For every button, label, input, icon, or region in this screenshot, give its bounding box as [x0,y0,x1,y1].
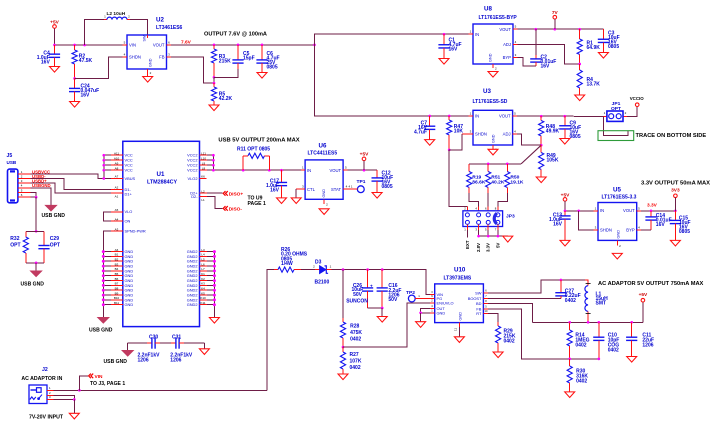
svg-text:LT1761ES5-BYP: LT1761ES5-BYP [479,15,518,21]
pin A1 D1+ [111,192,132,199]
svg-text:USBGND: USBGND [32,183,51,188]
pin L7 GND2 [187,267,216,273]
resistor R32 [10,231,36,263]
svg-text:15pF: 15pF [243,56,255,62]
wire output rail [532,321,643,323]
ground C1 [439,59,449,65]
svg-text:VOUT: VOUT [623,208,635,213]
pin L1 D2- [191,194,207,202]
ground R29 [493,352,503,358]
svg-text:SW: SW [143,35,147,42]
svg-text:0402: 0402 [565,298,576,304]
wire BD to output rail [488,304,532,323]
wire U8 VOUT rail [518,28,604,30]
ground U2 [143,77,153,83]
wire VCC2 rail to U6 [243,169,306,171]
svg-text:4.7uF: 4.7uF [414,130,427,136]
svg-text:LT1761ES5-3.3: LT1761ES5-3.3 [602,195,637,201]
svg-text:86.6K: 86.6K [472,179,486,185]
op-amp U3 LT1761ES5-SD [462,88,517,152]
ground U1 right [209,318,219,324]
wire BYP U5 [641,229,651,231]
svg-text:OPT: OPT [611,106,621,112]
pin K5 GND2 [187,291,216,297]
power +5V (output) [639,292,648,323]
svg-text:OUTPUT 7.6V @ 100mA: OUTPUT 7.6V @ 100mA [204,31,267,37]
svg-text:GND: GND [617,230,621,239]
wire U5 input [565,210,598,212]
wire VLO-ON strap [103,212,111,221]
wire U1 VCC2 bus [213,155,243,170]
diode D3 B2100 [313,259,332,285]
ground R27 [338,374,348,380]
svg-text:B4: B4 [115,267,119,271]
svg-text:BYP: BYP [503,55,512,60]
svg-text:DISO+: DISO+ [229,191,244,197]
node input rail junctions [53,44,86,47]
ground C12 [372,193,382,199]
wire R19 to JP3 [469,193,478,206]
svg-text:4 1: 4 1 [349,185,353,189]
capacitor C16 [377,270,402,308]
svg-text:VOUT: VOUT [499,27,511,32]
wire USBVCC to U1 [31,174,123,178]
power 7V [552,10,559,29]
wire J5 shield [31,193,37,198]
ground USB GND (U1) [89,318,113,334]
svg-text:7V: 7V [552,10,559,16]
ground R30 [565,392,575,398]
capacitor C6 [256,45,279,73]
svg-text:VCCIO: VCCIO [630,96,644,101]
svg-text:IN: IN [475,114,479,119]
svg-text:CTL: CTL [307,187,316,192]
svg-text:VOUT: VOUT [153,42,165,47]
capacitor C2 [530,29,556,69]
wire R50 to JP3 [498,193,507,206]
resistor R49 [539,145,559,177]
svg-text:B2100: B2100 [315,280,330,286]
svg-text:J5: J5 [7,153,13,159]
op-amp U8 LT1761ES5-BYP [469,6,518,71]
svg-text:IN: IN [307,168,311,173]
wire diagonal divider [521,145,541,164]
svg-text:B6: B6 [115,277,119,281]
pin A10 VCC [102,156,132,162]
svg-text:VIN: VIN [129,42,136,47]
ground U10 OUT [416,322,426,328]
wire BOOST to C27 [488,297,561,299]
svg-text:IN: IN [600,208,604,213]
pin B7 GND [102,282,134,288]
resistor R11 [237,147,270,171]
wire VIN riser to R26 [267,270,274,391]
pin L8 VCC2 [187,166,215,172]
svg-text:L2 10uH: L2 10uH [107,11,126,17]
resistor R27 [340,347,361,374]
connector J5 USB [7,153,31,203]
svg-text:50V: 50V [353,292,363,298]
svg-text:USB GND: USB GND [104,359,128,365]
pin L4 GND2 [187,253,216,259]
svg-text:GND: GND [437,310,446,315]
ground U3 [488,149,498,155]
svg-text:0805: 0805 [382,184,393,190]
ground U8 [488,72,498,78]
pin K1 GND2 [187,272,216,278]
capacitor C30 [138,335,161,364]
svg-text:VLO: VLO [125,209,133,214]
svg-text:B8: B8 [115,286,119,290]
wire USBD- to U1 [31,179,123,190]
svg-text:DISO-: DISO- [229,206,243,212]
wire SHDN U3 [449,134,462,150]
svg-text:107K: 107K [350,359,362,365]
resistor R3 [211,45,231,77]
pin B1 GND [102,253,134,259]
ground U10 [454,337,464,343]
wire D2- to ISO- [207,196,223,208]
wire U3 VOUT rail [517,115,607,117]
pin K4 GND2 [187,286,216,292]
svg-text:C31: C31 [172,335,181,341]
svg-text:+5V: +5V [50,20,59,26]
svg-text:475K: 475K [350,330,362,336]
svg-text:0805: 0805 [608,44,619,50]
svg-text:GND: GND [322,189,326,198]
svg-text:16V: 16V [553,222,563,228]
pin L10 VCC2 [187,156,215,162]
power VCCIO [630,96,644,106]
svg-text:B3: B3 [115,262,119,266]
pin K3 GND2 [187,282,216,288]
svg-text:1206: 1206 [138,358,149,364]
pin A4 ON [111,217,131,223]
svg-text:5V: 5V [495,243,500,248]
pin A2 D1- [111,186,131,192]
wire SHDN to JP3 [449,150,467,207]
resistor R26 [274,247,308,272]
svg-text:2.8V: 2.8V [476,243,481,252]
wire trace on bottom side [603,116,627,135]
svg-text:A5: A5 [115,208,119,212]
svg-text:SHDN: SHDN [600,228,612,233]
svg-text:SHDN: SHDN [475,132,487,137]
wire C30 left [127,343,129,350]
svg-text:TP1: TP1 [357,179,366,185]
svg-text:ADJ: ADJ [503,42,511,47]
svg-text:VOUT: VOUT [329,168,341,173]
svg-text:TO J3, PAGE 1: TO J3, PAGE 1 [90,381,125,387]
power +5V (U2 input) [50,20,59,29]
svg-text:U5: U5 [613,187,621,194]
capacitor C11 [626,322,654,356]
svg-text:0805: 0805 [679,229,690,235]
capacitor C26 polarized [346,270,373,308]
svg-text:C29: C29 [50,236,59,242]
node VIN off-page [89,374,103,381]
capacitor C10 [593,322,619,359]
svg-text:C30: C30 [149,335,158,341]
capacitor C4 [37,45,60,67]
pin L11 VCC2 [187,151,215,157]
svg-text:L8: L8 [202,166,206,170]
wire USBD+ to U1 [31,183,123,193]
wire rail to U8 [315,34,474,45]
svg-text:L7: L7 [201,267,205,271]
svg-text:USB GND: USB GND [89,328,113,334]
svg-text:1206: 1206 [170,358,181,364]
wire U1 VCC bus [103,155,105,178]
capacitor C1 [438,34,461,58]
wire RT to R29 [488,314,498,323]
wire 7.6V rail [171,44,315,46]
svg-text:K2: K2 [201,277,205,281]
svg-text:D3: D3 [315,259,322,265]
power +5V (U6) [360,152,369,171]
pin A7 VBUS [111,175,135,181]
wire SHDN U2 [75,57,127,79]
op-amp U10 LT3973EMS [430,267,488,332]
power 3V3 [671,187,680,211]
power +5V (U5) [561,192,570,210]
ground R4 [575,95,585,101]
resistor R1 [577,29,600,64]
ground C11 [627,357,637,363]
svg-text:0402: 0402 [576,379,587,385]
svg-text:GND: GND [492,134,496,143]
svg-text:A10: A10 [114,156,120,160]
connector J2 [21,367,62,404]
ground JP3 [503,236,513,242]
svg-text:BYP: BYP [626,228,635,233]
svg-text:0402: 0402 [504,339,515,345]
svg-text:B2: B2 [115,257,119,261]
svg-text:VCC: VCC [125,168,133,173]
wire C31 right [203,343,205,349]
svg-text:105K: 105K [547,158,559,164]
wire R3-R5 [213,77,215,83]
ground C26/C16 [377,317,387,323]
ground C31 [199,349,209,355]
svg-text:U3: U3 [483,88,491,95]
svg-text:0402: 0402 [575,342,586,348]
wire U10 gnd [458,327,460,337]
node R48/R49 [540,144,543,147]
resistor R5 [211,83,232,105]
svg-text:+5V: +5V [639,292,648,298]
svg-text:USB 5V OUTPUT 200mA MAX: USB 5V OUTPUT 200mA MAX [218,137,299,143]
svg-text:+: + [370,284,373,289]
wire rail to U3 [315,45,474,116]
ground C24 [70,102,80,108]
wire C26/C16 gnd [368,307,384,317]
wire FB [488,309,599,359]
svg-text:GND2: GND2 [187,302,198,307]
pin K11 GND2 [187,301,216,307]
svg-text:EN/UVLO: EN/UVLO [437,301,454,306]
svg-text:13.7K: 13.7K [587,82,601,88]
pin A6 GND [102,248,134,254]
svg-text:K3: K3 [201,282,205,286]
svg-text:16V: 16V [270,187,280,193]
pin B2 GND [102,257,134,263]
capacitor C27 [555,280,580,304]
svg-text:B11: B11 [114,301,119,305]
wire CTL gnd [295,189,297,198]
ground C7 [425,140,435,146]
pin B8 GND [102,286,134,292]
svg-text:LTC4411ES5: LTC4411ES5 [308,150,338,156]
pin K10 GND2 [187,296,216,302]
svg-text:0805: 0805 [267,64,278,70]
green box trace [598,131,634,141]
capacitor C5 [232,45,254,69]
ground U6 GND [319,209,329,215]
resistor R14 [567,322,590,359]
svg-text:A11: A11 [114,151,119,155]
svg-text:B10: B10 [114,296,120,300]
svg-text:R27: R27 [350,352,359,358]
wire FB feedback [171,57,214,83]
inductor L2 [104,11,130,20]
svg-text:R28: R28 [350,324,359,330]
op-amp U6 LTC4411ES5 [296,142,347,206]
wire BYP to C2 [518,58,536,66]
pin A5 VLO [111,208,132,214]
wire U1 left GND bus [102,252,104,318]
svg-text:AC ADAPTOR 5V OUTPUT 750mA MAX: AC ADAPTOR 5V OUTPUT 750mA MAX [598,281,704,287]
svg-text:42.2K: 42.2K [219,96,233,102]
svg-text:+5V: +5V [360,152,369,158]
svg-text:BD: BD [476,301,482,306]
svg-text:SMT: SMT [596,301,607,307]
svg-text:3.3V: 3.3V [486,243,491,252]
pin L5 GND2 [187,257,216,263]
wire U5 SHDN [579,211,598,230]
ground C15 [670,240,680,246]
svg-text:K5: K5 [201,291,205,295]
pin A9 VCC [102,161,132,167]
resistor R30 [567,359,588,392]
ground U5 [612,253,622,259]
svg-text:VBUS: VBUS [125,176,136,181]
svg-text:USB GND: USB GND [42,213,66,219]
svg-text:A2: A2 [115,186,119,190]
svg-text:K6: K6 [201,175,205,179]
svg-text:16V: 16V [81,93,91,99]
svg-text:VLO2: VLO2 [188,176,198,181]
pin A8 VCC [102,166,132,172]
capacitor C9 [559,116,581,140]
svg-text:16V: 16V [41,59,51,65]
resistor R19 [467,164,486,193]
pin A11 VCC [102,151,132,157]
wire D3 to VIN U10 [332,270,431,295]
capacitor C24 [69,79,99,102]
capacitor C17 [266,170,287,198]
svg-text:LT1761ES5-SD: LT1761ES5-SD [473,99,508,105]
svg-text:EXT: EXT [465,240,470,249]
wire JP1 pin2 to VCCIO [627,107,637,117]
svg-text:A9: A9 [115,161,119,165]
svg-text:U2: U2 [156,17,164,24]
capacitor C15 [670,211,691,241]
inductor L1 [585,280,608,322]
resistor R51 [486,164,505,193]
svg-text:B1: B1 [115,253,119,257]
svg-text:VIN: VIN [95,374,104,380]
svg-text:ADJ: ADJ [503,132,511,137]
text TO U9 PAGE 1 [248,196,266,207]
op-amp U5 LT1761ES5-3.3 [594,187,642,249]
resistor R50 [505,164,524,193]
pin K6 VLO2 [188,175,207,181]
svg-text:SHDN: SHDN [129,54,141,59]
svg-text:STAT: STAT [331,187,342,192]
wire U6 VOUT [348,169,378,171]
svg-text:3.3V: 3.3V [647,203,658,209]
node R2/C24 junction [73,77,76,80]
pin L2 D2+ [190,189,207,195]
capacitor C7 [414,116,435,140]
svg-text:3V3: 3V3 [671,187,680,193]
pin L3 GND2 [187,248,216,254]
ground C17 [277,198,287,204]
svg-text:7V-20V INPUT: 7V-20V INPUT [29,415,64,421]
svg-text:SUNCON: SUNCON [346,298,368,304]
op-amp U2 LT3461ES6 [123,17,183,77]
svg-text:OPT: OPT [10,242,20,248]
svg-text:K1: K1 [201,272,205,276]
svg-text:64.9K: 64.9K [587,45,601,51]
svg-text:A3: A3 [115,227,119,231]
svg-text:U6: U6 [319,142,327,149]
svg-text:LT3461ES6: LT3461ES6 [156,25,183,31]
wire L2 branch [85,20,104,45]
svg-text:OPT: OPT [50,242,60,248]
capacitor C14 [645,211,671,230]
resistor R47 [447,116,464,150]
node R28/R27 [342,346,345,349]
node ISO- [223,206,242,212]
wire JP3 bottom pins [467,224,507,237]
svg-text:16V: 16V [656,222,666,228]
svg-text:49.9K: 49.9K [546,129,560,135]
wire L2 to SW [130,20,148,35]
svg-text:K4: K4 [201,286,205,290]
wire SW to L1 [488,280,585,293]
svg-text:L1: L1 [201,198,205,202]
svg-text:47.5K: 47.5K [79,58,93,64]
svg-text:D2-: D2- [191,194,198,199]
ground C13 [560,240,570,246]
ground C3 [598,53,608,59]
svg-text:GND: GND [489,53,493,62]
svg-text:215K: 215K [219,59,231,65]
svg-text:R11 OPT 0805: R11 OPT 0805 [237,147,270,153]
svg-text:B9: B9 [115,291,119,295]
svg-text:0402: 0402 [350,365,361,371]
svg-text:L3: L3 [201,248,205,252]
wire OUT/GND tie [419,308,430,321]
svg-text:GND: GND [459,312,463,321]
node VBUS junction [102,177,105,180]
svg-text:L5: L5 [201,257,205,261]
svg-text:7.6V: 7.6V [181,39,192,45]
resistor R48 [539,116,560,145]
svg-text:U1: U1 [157,171,165,178]
